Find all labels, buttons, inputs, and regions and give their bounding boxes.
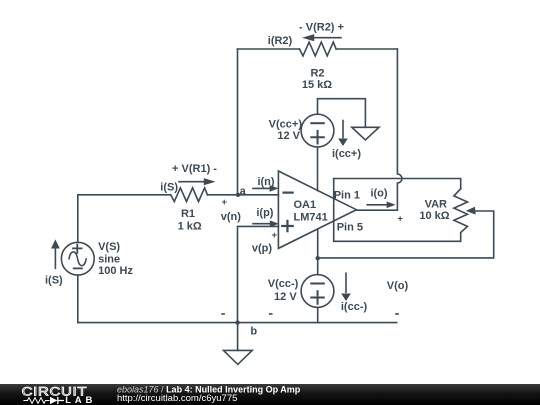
arrow i(o) pointing right xyxy=(367,204,387,206)
svg-text:LM741: LM741 xyxy=(294,212,328,224)
svg-text:+: + xyxy=(272,230,278,241)
wire: V(S) left vertical upper xyxy=(77,195,79,243)
wire: output from apex to feedback node xyxy=(356,209,397,211)
wire: Pin 1 horizontal to VAR top xyxy=(334,179,461,189)
wire: V(cc-) bottom to ground rail xyxy=(317,307,319,322)
wire: offset null pins vertical (Pin1/Pin5) xyxy=(333,179,335,242)
svg-text:VAR: VAR xyxy=(425,198,447,210)
wire: R2 row top horizontal right segment xyxy=(336,48,397,50)
wire: node b to ground xyxy=(237,323,239,351)
node a junction dot xyxy=(236,193,240,197)
voltage source V(cc+) circle xyxy=(301,114,334,147)
svg-text:i(o): i(o) xyxy=(370,188,387,200)
svg-text:+: + xyxy=(397,214,403,225)
svg-text:i(p): i(p) xyxy=(256,207,273,219)
svg-text:sine: sine xyxy=(98,253,120,265)
svg-text:i(n): i(n) xyxy=(257,176,274,188)
svg-text:i(cc+): i(cc+) xyxy=(332,148,361,160)
wire: V(S) bottom vertical xyxy=(77,275,79,323)
wire: input row from V(S) to R1 xyxy=(78,194,171,196)
wire: R2 right vertical down to output with jump over Pin1 wire xyxy=(397,49,402,210)
svg-text:R1: R1 xyxy=(181,208,195,220)
svg-text:Pin 1: Pin 1 xyxy=(334,189,360,201)
wire: V- power pin from op-amp down to V(cc-) xyxy=(317,230,319,275)
svg-text:a: a xyxy=(240,185,247,197)
arrow V(R1) pointing right xyxy=(179,181,204,183)
wire: v(p) path from node b up to plus input xyxy=(238,226,279,322)
svg-text:OA1: OA1 xyxy=(294,199,317,211)
svg-text:i(cc-): i(cc-) xyxy=(341,301,368,313)
wire: VAR bottom to Pin 5 horizontal xyxy=(334,233,461,242)
svg-text:Pin 5: Pin 5 xyxy=(337,221,363,233)
V(cc-) plus sign xyxy=(311,291,324,304)
arrow i(cc+) pointing down xyxy=(342,121,344,138)
svg-text:i(S): i(S) xyxy=(45,275,63,287)
arrow V(R2) pointing left xyxy=(314,37,341,39)
V(S) minus bar xyxy=(74,267,82,269)
wire: V+ power pin into op-amp xyxy=(317,147,319,191)
voltage source V(cc-) circle xyxy=(301,275,334,308)
arrow i(S) pointing up xyxy=(54,248,56,268)
wire: R1 to node a to op-amp minus input xyxy=(207,194,278,196)
svg-text:12 V: 12 V xyxy=(274,291,297,303)
arrow i(cc-) pointing down xyxy=(345,273,347,292)
svg-text:V(cc-): V(cc-) xyxy=(268,278,299,290)
svg-text:+: + xyxy=(222,197,228,208)
V(S) sine symbol xyxy=(69,252,86,266)
ground (top, for V(cc+)) xyxy=(352,127,379,140)
svg-text:R2: R2 xyxy=(310,68,324,80)
V(S) plus sign xyxy=(73,245,82,253)
svg-text:1 kΩ: 1 kΩ xyxy=(178,221,202,233)
resistor R1 1k zigzag xyxy=(171,188,208,202)
node b junction dot xyxy=(235,320,239,324)
svg-text:100 Hz: 100 Hz xyxy=(98,265,133,277)
svg-text:i(R2): i(R2) xyxy=(268,35,293,47)
potentiometer VAR zigzag xyxy=(454,189,468,233)
svg-text:V(cc+): V(cc+) xyxy=(269,119,303,131)
svg-text:10 kΩ: 10 kΩ xyxy=(419,210,449,222)
wire: node a to R2 top-left vertical xyxy=(237,49,239,195)
wiper arrow of VAR xyxy=(466,207,476,215)
label v(p) minus polarity xyxy=(269,313,273,315)
svg-text:v(n): v(n) xyxy=(221,211,242,223)
svg-text:b: b xyxy=(250,325,257,337)
svg-text:http://circuitlab.com/c6yu775: http://circuitlab.com/c6yu775 xyxy=(117,393,237,404)
wire: R2 row top horizontal left segment xyxy=(238,48,300,50)
wire: bottom ground rail xyxy=(78,322,397,324)
V(cc+) minus bar xyxy=(311,122,324,124)
logo resistor-diode squiggle xyxy=(23,398,49,404)
svg-text:- V(R2) +: - V(R2) + xyxy=(299,22,344,34)
arrow i(n) pointing right xyxy=(253,187,270,189)
svg-text:v(p): v(p) xyxy=(252,243,273,255)
op-amp plus input symbol xyxy=(282,221,293,231)
label V(o) minus polarity xyxy=(395,313,399,315)
svg-text:V(S): V(S) xyxy=(98,241,120,253)
ground (bottom, node b) xyxy=(224,350,253,364)
svg-text:15 kΩ: 15 kΩ xyxy=(302,79,332,91)
voltage source V(S) circle xyxy=(61,242,94,275)
resistor R2 15k zigzag xyxy=(299,42,336,56)
junction dot at V- rail and wiper wire xyxy=(316,256,320,260)
label v(n) minus polarity xyxy=(221,313,225,315)
arrow i(p) pointing right xyxy=(253,223,270,225)
op-amp minus input symbol xyxy=(284,192,293,194)
svg-text:LAB: LAB xyxy=(65,395,96,405)
svg-text:V(o): V(o) xyxy=(387,280,409,292)
svg-text:12 V: 12 V xyxy=(277,130,300,142)
V(cc+) plus sign xyxy=(311,131,324,144)
wire: wiper to V- rail xyxy=(318,211,494,258)
wire: Vcc+ top loop to ground xyxy=(318,99,366,128)
svg-text:+ V(R1) -: + V(R1) - xyxy=(172,163,217,175)
svg-text:i(S): i(S) xyxy=(160,181,178,193)
op-amp OA1 triangle xyxy=(278,171,356,248)
V(cc-) minus bar xyxy=(311,283,324,285)
